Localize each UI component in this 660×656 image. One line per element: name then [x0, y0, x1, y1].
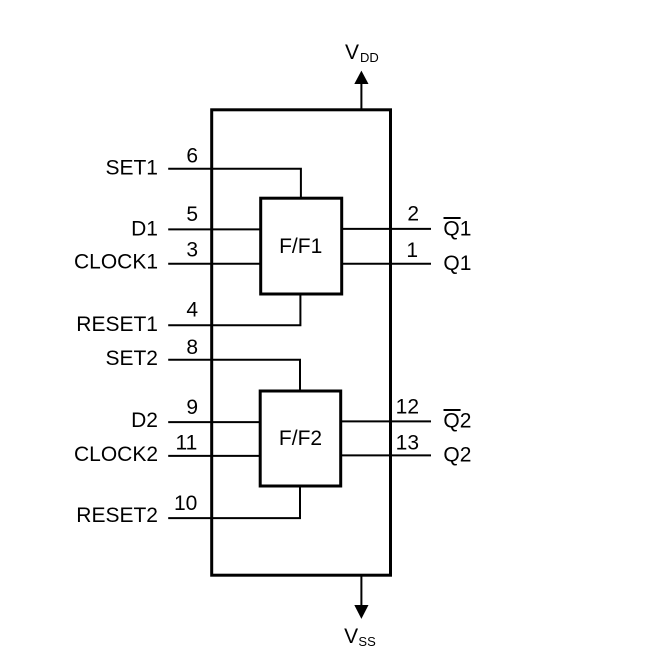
svg-text:VSS: VSS [344, 625, 376, 649]
svg-text:D2: D2 [131, 409, 158, 432]
svg-text:3: 3 [186, 239, 198, 262]
svg-text:SET2: SET2 [105, 347, 158, 370]
svg-text:4: 4 [186, 299, 198, 322]
flip-flop F/F2 box [260, 391, 341, 486]
flip-flop F/F1 box [261, 198, 342, 294]
wire D2 pin 9 [168, 421, 260, 423]
svg-text:CLOCK2: CLOCK2 [74, 443, 158, 466]
wire SET1 pin 6 [168, 169, 301, 199]
label Q-bar-2 [443, 409, 471, 432]
svg-text:Q2: Q2 [443, 444, 471, 467]
wire CLOCK2 pin 11 [168, 455, 260, 457]
svg-text:RESET1: RESET1 [76, 313, 158, 336]
svg-text:D1: D1 [131, 218, 158, 241]
VDD supply wire [360, 83, 362, 110]
wire Q2 pin 13 [341, 454, 431, 456]
wire RESET1 pin 4 [168, 294, 300, 325]
VSS supply wire [360, 575, 362, 606]
svg-text:9: 9 [186, 396, 198, 419]
wire CLOCK1 pin 3 [168, 263, 261, 265]
svg-text:6: 6 [186, 144, 198, 167]
wire Q-bar-2 pin 12 [341, 420, 431, 422]
svg-text:CLOCK1: CLOCK1 [74, 251, 158, 274]
svg-text:2: 2 [407, 203, 419, 226]
svg-text:8: 8 [186, 336, 198, 359]
wire RESET2 pin 10 [168, 486, 300, 518]
svg-text:10: 10 [174, 492, 197, 515]
svg-text:Q2: Q2 [443, 409, 471, 432]
wire D1 pin 5 [168, 228, 261, 230]
svg-text:Q1: Q1 [443, 252, 471, 275]
label Q-bar-1 [443, 218, 471, 241]
svg-text:RESET2: RESET2 [76, 504, 158, 527]
svg-text:11: 11 [175, 432, 197, 455]
wire Q-bar-1 pin 2 [342, 228, 431, 230]
svg-text:F/F2: F/F2 [279, 427, 322, 450]
VSS arrow [354, 605, 368, 619]
svg-text:13: 13 [396, 432, 419, 455]
wire SET2 pin 8 [168, 360, 300, 391]
svg-text:Q1: Q1 [443, 218, 471, 241]
svg-text:VDD: VDD [345, 41, 379, 65]
svg-text:12: 12 [396, 395, 419, 418]
svg-text:F/F1: F/F1 [279, 235, 322, 258]
svg-text:1: 1 [406, 239, 418, 262]
svg-text:SET1: SET1 [105, 157, 158, 180]
IC body outline [212, 110, 391, 575]
wire Q1 pin 1 [342, 263, 431, 265]
VDD arrow [354, 71, 368, 84]
svg-text:5: 5 [186, 203, 198, 226]
